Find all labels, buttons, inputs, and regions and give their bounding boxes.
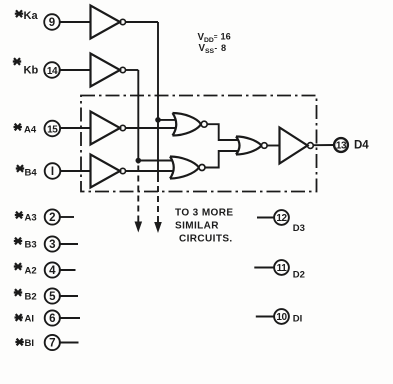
wire U3 out to G1 bottom input [126, 127, 177, 129]
svg-text:Ka: Ka [24, 10, 39, 22]
svg-text:14: 14 [47, 66, 58, 77]
svg-text:CIRCUITS.: CIRCUITS. [179, 234, 233, 245]
pin 6 circle [45, 310, 60, 325]
inverter U4 [91, 155, 121, 188]
svg-text:7: 7 [49, 338, 55, 350]
svg-text:13: 13 [336, 141, 347, 152]
svg-text:DI: DI [293, 314, 303, 325]
asterisk A3 [15, 212, 23, 219]
stub wire pin 6 [59, 317, 80, 319]
svg-text:11: 11 [277, 263, 288, 274]
stub wire pin 2 [59, 216, 74, 218]
pin 3 circle [45, 236, 60, 251]
svg-text:4: 4 [49, 265, 56, 277]
svg-text:6: 6 [49, 313, 55, 325]
asterisk A2 [14, 263, 22, 270]
svg-text:TO 3 MORE: TO 3 MORE [175, 208, 233, 219]
pin 15 circle [45, 121, 61, 137]
pin 10 circle D1 [274, 309, 289, 324]
svg-text:BI: BI [25, 338, 35, 349]
pin 7 circle [45, 335, 60, 350]
svg-text:A2: A2 [25, 266, 37, 277]
wire U5 out to pin 13 [313, 144, 334, 146]
svg-text:A4: A4 [24, 125, 37, 136]
wire U2 out to Kb rail [126, 69, 139, 71]
dash-dot enclosure box [81, 96, 317, 192]
svg-text:D4: D4 [354, 140, 369, 152]
svg-text:SS: SS [205, 48, 215, 55]
asterisk B3 [14, 238, 22, 245]
wire G3 out to U5 [267, 145, 279, 147]
wire junction to G2 top input [138, 160, 173, 162]
wire pin15 to U3 [60, 127, 91, 129]
stub wire pin 4 [59, 269, 76, 271]
svg-text:10: 10 [276, 312, 287, 323]
asterisk B1 [15, 339, 23, 346]
svg-text:SIMILAR: SIMILAR [175, 221, 219, 232]
pin 4 circle [45, 262, 60, 277]
svg-text:9: 9 [49, 17, 55, 29]
svg-text:-: - [215, 44, 218, 53]
junction dot Ka / G1 [155, 117, 161, 123]
svg-text:15: 15 [47, 124, 58, 135]
asterisk Kb [13, 58, 21, 65]
svg-text:B3: B3 [25, 240, 37, 251]
svg-text:2: 2 [49, 212, 55, 224]
pin 12 circle D3 [274, 210, 289, 225]
wire G2 out to G3 bottom input [205, 151, 238, 168]
NOR gate G1 [173, 113, 208, 136]
Kb rail dashed continuation [137, 166, 139, 222]
arrowhead Kb rail [135, 222, 143, 233]
svg-text:B4: B4 [25, 168, 38, 179]
pin 14 circle [44, 62, 60, 78]
asterisk Ka [15, 10, 23, 17]
NOR gate G3 [236, 137, 267, 155]
svg-text:DD: DD [204, 37, 214, 44]
svg-text:D3: D3 [293, 223, 305, 234]
pin 13 circle D4 [334, 138, 348, 152]
stub wire pin 11 [254, 267, 274, 269]
svg-text:B2: B2 [25, 292, 37, 303]
asterisk B2 [14, 289, 22, 296]
svg-text:AI: AI [25, 314, 35, 325]
pin 5 circle [45, 288, 60, 303]
inverter U2 [91, 54, 121, 87]
stub wire pin 10 [256, 316, 274, 318]
pin 1 circle [45, 163, 61, 179]
stub wire pin 7 [59, 342, 79, 344]
asterisk B4 [16, 165, 24, 172]
wire U1 out to Ka rail [126, 21, 159, 23]
pin 11 circle D2 [274, 260, 289, 275]
asterisk A4 [14, 124, 22, 131]
arrowhead Ka rail [154, 222, 162, 233]
inverter U5 [280, 128, 308, 164]
svg-text:=: = [214, 34, 218, 41]
wire pin14 to U2 [59, 69, 91, 71]
Ka rail dashed continuation [157, 176, 159, 222]
svg-text:3: 3 [49, 239, 55, 251]
svg-text:Kb: Kb [24, 65, 39, 77]
svg-text:8: 8 [221, 43, 226, 53]
pin 9 circle [44, 14, 60, 30]
svg-text:I: I [51, 166, 54, 178]
Kb rail vertical solid [137, 70, 139, 164]
stub wire pin 3 [59, 243, 78, 245]
Ka rail vertical solid [157, 22, 159, 176]
wire pin1 to U4 [60, 170, 90, 172]
NOR gate G2 [170, 157, 205, 179]
svg-text:5: 5 [49, 291, 56, 303]
inverter U3 [91, 112, 121, 145]
svg-text:12: 12 [276, 213, 287, 224]
stub wire pin 5 [59, 295, 78, 297]
wire U4 out to G2 bottom input [126, 170, 175, 172]
junction dot Kb / G2 [136, 158, 142, 164]
stub wire pin 12 [257, 217, 274, 219]
svg-text:16: 16 [221, 32, 231, 42]
asterisk A1 [15, 314, 23, 321]
svg-text:D2: D2 [293, 270, 305, 281]
svg-text:A3: A3 [25, 213, 37, 224]
wire pin9 to U1 [59, 21, 91, 23]
wire junction to G1 top input [158, 119, 176, 121]
wire G1 out to G3 top input [207, 124, 238, 140]
inverter U1 [91, 6, 121, 39]
pin 2 circle [45, 209, 60, 224]
